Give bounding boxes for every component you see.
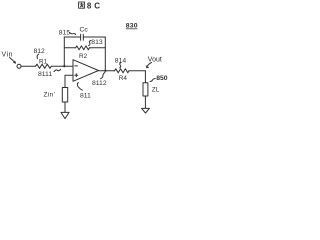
svg-text:8: 8 bbox=[87, 2, 92, 11]
wire Vout node down to ZL bbox=[144, 71, 146, 83]
wire noninverting to Zin bbox=[65, 75, 73, 87]
leader 812 to R1 bbox=[37, 54, 39, 59]
svg-text:R2: R2 bbox=[79, 53, 88, 60]
svg-text:R4: R4 bbox=[119, 75, 128, 82]
node Vin terminal bbox=[17, 64, 21, 68]
wire opamp output to R4 bbox=[99, 70, 115, 72]
leader 815 to Cc bbox=[70, 33, 76, 35]
wire Vin to R1 bbox=[21, 65, 36, 67]
leader Vout arrow to node bbox=[147, 63, 152, 68]
wire top branch right bbox=[83, 36, 105, 38]
svg-text:ZL: ZL bbox=[152, 87, 160, 94]
resistor R2 bbox=[76, 46, 90, 50]
svg-text:C: C bbox=[94, 2, 100, 11]
leader 813 to R2 bbox=[89, 41, 92, 46]
resistor R4 bbox=[115, 69, 130, 73]
wire top branch left bbox=[64, 36, 80, 38]
svg-text:814: 814 bbox=[115, 57, 127, 64]
svg-text:815: 815 bbox=[59, 30, 71, 37]
leader 811 to op-amp bbox=[77, 83, 82, 91]
wire feedback left vertical bbox=[63, 37, 65, 66]
leader 8112 to output node bbox=[100, 72, 105, 78]
svg-text:813: 813 bbox=[91, 39, 103, 46]
leader Vin arrow to terminal bbox=[10, 58, 16, 64]
node A junction dot bbox=[63, 65, 65, 67]
svg-text:R1: R1 bbox=[39, 59, 48, 66]
op-amp U811 bbox=[73, 60, 99, 82]
svg-text:Vout: Vout bbox=[148, 57, 162, 64]
title 図8C : hand-drawn 図 glyph bbox=[79, 2, 85, 8]
wire R2 branch right bbox=[90, 47, 106, 49]
wire ZL to ground bbox=[144, 96, 146, 108]
leader 814 to R4 bbox=[120, 63, 121, 68]
svg-text:Zin': Zin' bbox=[44, 92, 56, 99]
leader 8111 to input wire bbox=[54, 69, 61, 71]
capacitor Cc bbox=[81, 34, 84, 40]
leader 850 to ZL bbox=[150, 79, 155, 82]
ground under Zin' bbox=[61, 112, 69, 118]
svg-text:812: 812 bbox=[34, 48, 46, 55]
pin minus bbox=[75, 65, 78, 67]
resistor R1 bbox=[36, 64, 52, 68]
underline of 830 bbox=[126, 28, 138, 30]
impedance ZL box bbox=[143, 83, 148, 96]
svg-text:Cc: Cc bbox=[80, 26, 89, 33]
svg-text:8112: 8112 bbox=[92, 80, 107, 87]
pin plus bbox=[75, 74, 78, 77]
node B junction dot output bbox=[104, 70, 106, 72]
svg-text:Vin: Vin bbox=[2, 52, 14, 59]
svg-text:850: 850 bbox=[156, 75, 168, 82]
wire Zin box to ground bbox=[64, 102, 66, 112]
ground under ZL bbox=[142, 108, 150, 113]
svg-text:811: 811 bbox=[80, 93, 91, 100]
impedance Zin' box bbox=[62, 88, 67, 103]
wire feedback right vertical bbox=[104, 37, 106, 71]
wire R1 to inverting input bbox=[51, 65, 73, 67]
svg-text:8111: 8111 bbox=[38, 71, 52, 78]
wire R2 branch left bbox=[64, 47, 75, 49]
wire R4 to Vout node bbox=[129, 70, 145, 72]
